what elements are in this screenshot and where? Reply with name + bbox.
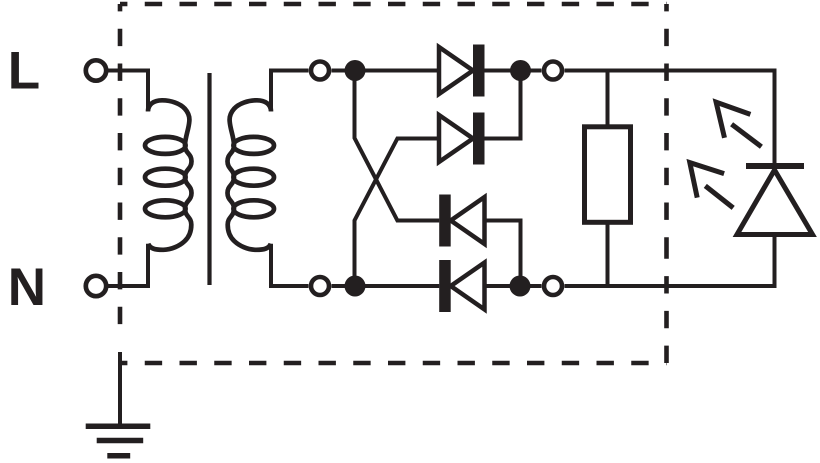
terminal DC bottom — [544, 277, 562, 295]
LED arrow 2 — [690, 163, 733, 208]
junction dot bottom-right — [510, 276, 531, 297]
transformer core — [207, 73, 211, 285]
wire top rail: terminal to D1 — [332, 69, 440, 73]
ground bar 1 — [86, 423, 151, 429]
junction dot top-left — [345, 60, 366, 81]
wire bottom rail right: terminal to LED bottom — [565, 232, 775, 286]
ground bar 3 — [107, 453, 130, 459]
diode D2 — [439, 113, 485, 165]
terminal AC bottom — [311, 277, 329, 295]
LED triangle — [737, 170, 813, 235]
terminal DC top — [544, 62, 562, 80]
svg-text:N: N — [8, 258, 46, 317]
junction dot top-right — [510, 60, 531, 81]
LED cathode bar — [746, 163, 804, 169]
terminal L — [86, 60, 106, 80]
LED arrow 1 — [716, 102, 761, 147]
terminal N — [86, 276, 106, 296]
wire top rail: D1 to output terminal — [485, 69, 542, 73]
resistor R1 — [585, 127, 631, 223]
wire D2 output to top rail — [485, 71, 521, 139]
wire bottom rail: D4 to output terminal — [485, 284, 542, 288]
wire A: top node to D3 (crossing) — [355, 71, 440, 221]
wire secondary bottom to AC input terminal — [271, 244, 309, 286]
svg-text:L: L — [8, 42, 40, 101]
wire secondary top to AC input terminal — [271, 71, 309, 112]
wire B: bottom node to D2 (crossing) — [355, 139, 440, 287]
wire bottom rail: terminal to D4 — [332, 284, 440, 288]
ground stem — [118, 352, 122, 426]
terminal AC top — [311, 62, 329, 80]
wire top rail right: terminal to LED, down right side — [565, 71, 775, 164]
ground bar 2 — [97, 438, 144, 444]
diode D4 — [439, 260, 484, 312]
wire N terminal to transformer primary bottom — [105, 244, 148, 286]
wire L terminal to transformer primary top — [105, 71, 148, 112]
transformer T1 primary winding — [145, 100, 192, 250]
diode D3 — [439, 195, 484, 247]
junction dot bottom-left — [345, 276, 366, 297]
resistor R1 leads — [606, 71, 610, 127]
enclosure dashed box — [120, 4, 667, 363]
transformer T1 secondary winding — [228, 100, 275, 250]
wire D3 output to bottom rail — [485, 221, 521, 287]
diode D1 — [439, 45, 485, 97]
